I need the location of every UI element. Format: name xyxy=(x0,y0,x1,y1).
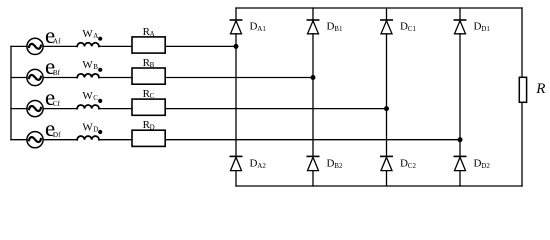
inductor WD xyxy=(77,136,99,140)
diode DC2 xyxy=(381,156,392,170)
AC source eCf xyxy=(27,101,43,117)
AC source eBf xyxy=(27,69,43,85)
inductor WB xyxy=(77,74,99,78)
junction node C xyxy=(384,106,389,111)
diode DB1 xyxy=(307,20,318,34)
resistor RC xyxy=(132,99,165,115)
polarity dot of WD xyxy=(98,130,102,134)
wire inductor to resistor RA xyxy=(99,45,132,47)
diode DC1 xyxy=(381,20,392,34)
wire inductor to resistor RB xyxy=(99,77,132,79)
wire resistor RA to branch 1 xyxy=(165,45,236,47)
resistor RA xyxy=(132,37,165,53)
inductor WC xyxy=(77,105,99,109)
wire branch 3 vertical xyxy=(386,8,388,186)
AC source eDf xyxy=(27,132,43,148)
wire inductor to resistor RC xyxy=(99,108,132,110)
wire source to inductor WC xyxy=(43,108,77,110)
wire resistor RD to branch 4 xyxy=(165,139,460,141)
wire inductor to resistor RD xyxy=(99,139,132,141)
wire source to inductor WA xyxy=(43,45,77,47)
diode DB2 xyxy=(307,156,318,170)
wire right rail upper xyxy=(521,8,523,77)
wire bottom rail xyxy=(236,185,522,187)
wire stub from bus to source eDf xyxy=(11,139,27,141)
wire source to inductor WB xyxy=(43,77,77,79)
wire branch 4 vertical xyxy=(459,8,461,186)
inductor WA xyxy=(77,43,99,47)
resistor RD xyxy=(132,130,165,146)
diode DD1 xyxy=(454,20,465,34)
wire branch 2 vertical xyxy=(312,8,314,186)
junction node B xyxy=(311,75,316,80)
wire resistor RC to branch 3 xyxy=(165,108,386,110)
diode DA1 xyxy=(230,20,241,34)
polarity dot of WA xyxy=(98,37,102,41)
wire source to inductor WD xyxy=(43,139,77,141)
wire right rail lower xyxy=(521,102,523,186)
junction node A xyxy=(234,44,239,49)
load resistor R xyxy=(519,77,526,102)
polarity dot of WC xyxy=(98,99,102,103)
AC source eAf xyxy=(27,38,43,54)
resistor RB xyxy=(132,68,165,84)
diode DA2 xyxy=(230,156,241,170)
wire resistor RB to branch 2 xyxy=(165,77,313,79)
diode DD2 xyxy=(454,156,465,170)
junction node D xyxy=(458,137,463,142)
wire stub from bus to source eBf xyxy=(11,77,27,79)
wire stub from bus to source eCf xyxy=(11,108,27,110)
wire left neutral bus xyxy=(10,46,12,139)
wire branch 1 vertical xyxy=(235,8,237,186)
wire top rail xyxy=(236,7,522,9)
wire stub from bus to source eAf xyxy=(11,45,27,47)
polarity dot of WB xyxy=(98,68,102,72)
svg-text:R: R xyxy=(535,81,545,97)
